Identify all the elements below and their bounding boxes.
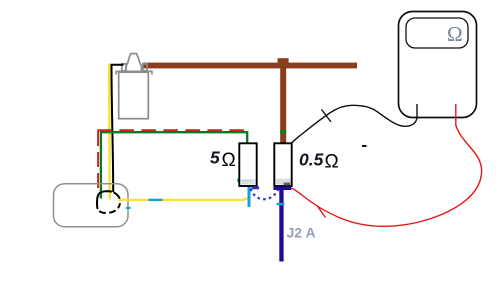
svg-text:Ω: Ω xyxy=(325,152,339,173)
wire navy vertical J2 A xyxy=(279,188,283,262)
tick on black probe lead xyxy=(322,110,332,123)
cyan dash left of R1 xyxy=(237,179,239,182)
blue bar under R1 xyxy=(252,186,260,189)
coil left terminal xyxy=(122,64,126,71)
coil top flange xyxy=(116,71,153,74)
wire yellow vertical (coil to connector) xyxy=(108,64,111,200)
connector J2 housing xyxy=(54,184,129,227)
wire blue dotted jumper between R1 and R2 xyxy=(251,189,279,200)
coil body xyxy=(119,72,149,119)
ignition coil T1 (gray) xyxy=(116,54,153,119)
ohmmeter black probe lead xyxy=(287,104,418,147)
ohmmeter U1 body xyxy=(399,12,477,118)
svg-text:Ω: Ω xyxy=(222,150,236,171)
svg-text:J2 A: J2 A xyxy=(287,225,316,241)
wire cyan stray dash xyxy=(126,207,131,209)
resistor R2 (0.5 ohm) xyxy=(274,143,291,186)
ohmmeter U1 display xyxy=(406,18,468,48)
connector cavity (freehand circle) xyxy=(97,191,120,213)
wire red dashed tracer (horizontal) xyxy=(97,129,246,131)
ohmmeter red probe lead xyxy=(292,104,482,226)
resistor R1 (5 ohm) xyxy=(239,143,256,186)
wire red dashed tracer (vertical) xyxy=(97,131,99,193)
svg-text:0.5: 0.5 xyxy=(299,150,324,170)
navy bus bar under R2 xyxy=(274,186,292,190)
green band crossing brown wire xyxy=(280,130,286,133)
wire brown horizontal (coil + feed) xyxy=(143,63,357,69)
stray dash mark xyxy=(362,145,367,147)
brown junction bump xyxy=(278,58,289,63)
wire yellow horizontal (connector to R1) xyxy=(119,199,250,200)
wire cyan dash on yellow run xyxy=(149,199,163,201)
tick on red probe lead xyxy=(317,206,326,218)
wire black from coil negative terminal xyxy=(112,65,124,192)
wire green (connector to resistor R1) xyxy=(101,132,247,198)
coil right terminal xyxy=(143,64,147,71)
svg-text:Ω: Ω xyxy=(447,22,463,46)
cyan tick on navy wire xyxy=(277,203,285,205)
wire brown vertical drop to resistor xyxy=(280,59,286,148)
svg-text:5: 5 xyxy=(210,148,220,168)
wire cyan vertical (R1 lead) xyxy=(248,187,251,208)
coil tower peak xyxy=(126,54,141,71)
